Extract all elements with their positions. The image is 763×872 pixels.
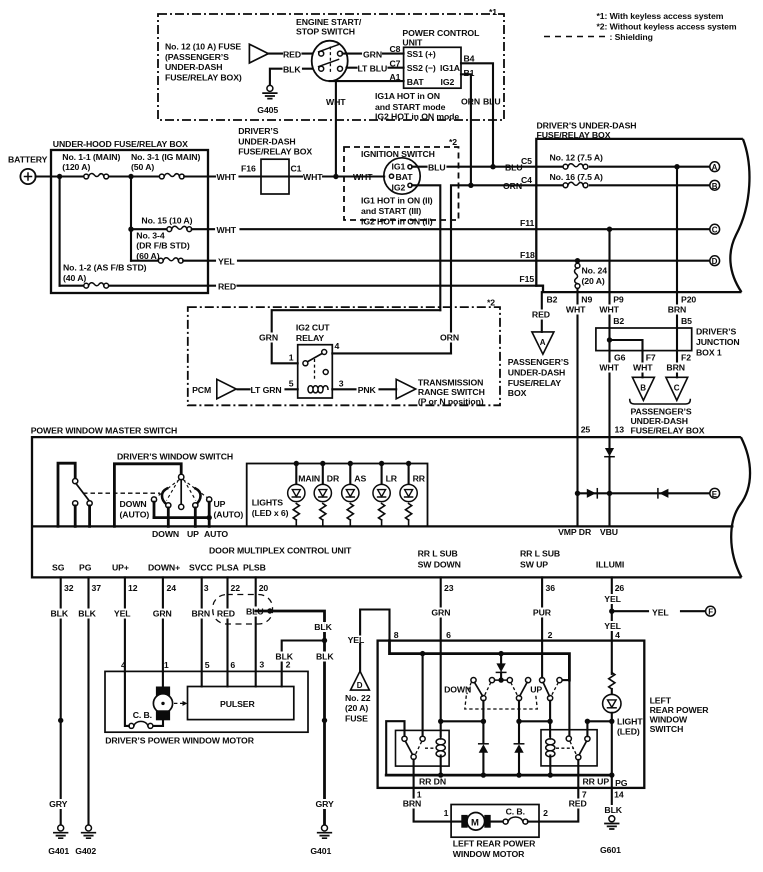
fuse No.1-2	[84, 283, 109, 288]
svg-text:TRANSMISSION: TRANSMISSION	[418, 378, 483, 388]
svg-text:BOX 1: BOX 1	[696, 348, 722, 358]
wire BLK jog right and down	[256, 611, 325, 825]
wire P9 vertical	[608, 229, 610, 292]
aux switch feed (inverted U)	[58, 463, 75, 526]
wire CB to box edge	[528, 821, 539, 823]
wire aux left contact to bar	[74, 506, 77, 527]
connector circle D	[710, 256, 720, 266]
svg-text:AS: AS	[354, 474, 366, 484]
svg-text:BATTERY: BATTERY	[8, 155, 48, 165]
wire BLU from IG1 to C5	[412, 166, 536, 168]
svg-text:PLSA: PLSA	[216, 563, 240, 573]
connector triangle D (pointing up)	[351, 671, 370, 690]
pivot stem	[180, 480, 182, 505]
svg-text:(DR F/B STD): (DR F/B STD)	[136, 241, 190, 251]
svg-text:PCM: PCM	[192, 385, 211, 395]
svg-text:GRN: GRN	[153, 609, 172, 619]
node PG bus	[609, 772, 614, 777]
wire RED to rear motor	[539, 788, 578, 822]
svg-text:WHT: WHT	[326, 97, 346, 107]
switch arm DOWN	[475, 682, 483, 696]
wire UP contact down	[194, 508, 197, 527]
svg-text:B2: B2	[547, 295, 558, 305]
LIGHTS sub box	[247, 464, 428, 527]
wire WHT from C1 to ignition node	[289, 175, 384, 177]
motor M2 circle	[467, 813, 485, 831]
svg-text:36: 36	[546, 583, 556, 593]
connector triangle A	[532, 332, 554, 354]
switch bottom contact row	[481, 696, 486, 701]
wire F18 row	[536, 260, 710, 262]
svg-text:REAR POWER: REAR POWER	[650, 705, 710, 715]
wire DOWN(AUTO) to link bar	[153, 502, 156, 517]
svg-text:6: 6	[446, 630, 451, 640]
svg-text:(20 A): (20 A)	[345, 703, 368, 713]
wire PUR pin2 down to UP switch area	[541, 641, 543, 678]
connector circle E	[710, 488, 720, 498]
svg-text:1: 1	[164, 660, 169, 670]
svg-text:BLK: BLK	[316, 652, 334, 662]
svg-text:*2: *2	[487, 298, 495, 308]
svg-text:3: 3	[204, 583, 209, 593]
svg-text:No. 22: No. 22	[345, 693, 371, 703]
aux switch contact left	[73, 501, 78, 506]
relay UP contact left	[566, 736, 571, 741]
dashed enclosure *2	[188, 307, 500, 405]
svg-text:POWER CONTROL: POWER CONTROL	[402, 28, 480, 38]
node BLK tap on BLU wire	[267, 608, 272, 613]
rear motor box	[451, 805, 539, 838]
wire C5 row	[536, 166, 710, 168]
fuse feed triangle	[249, 44, 268, 63]
motor M2 brush right	[484, 815, 490, 828]
left banana contact	[162, 489, 167, 506]
relay DN contact left	[402, 736, 407, 741]
svg-text:F7: F7	[646, 353, 656, 363]
svg-text:A: A	[540, 338, 546, 347]
wire P20 BRN down to junction box	[676, 292, 678, 328]
svg-text:5: 5	[289, 379, 294, 389]
svg-text:32: 32	[64, 583, 74, 593]
svg-text:No. 12 (7.5 A): No. 12 (7.5 A)	[550, 153, 604, 163]
wire mid bus down	[130, 177, 132, 261]
svg-text:E: E	[712, 490, 718, 499]
fuse No.15	[167, 226, 192, 231]
svg-text:BLU: BLU	[505, 162, 523, 172]
svg-text:26: 26	[615, 583, 625, 593]
relay mech dash link	[314, 359, 316, 381]
node on SG wire	[58, 718, 63, 723]
node LED row right	[609, 719, 614, 724]
pin 23 wire GRN down to rear switch pin 6	[440, 577, 442, 640]
svg-text:ILLUMI: ILLUMI	[596, 560, 624, 570]
svg-text:LEFT: LEFT	[650, 696, 672, 706]
wire CB to YEL pin4	[125, 671, 129, 726]
svg-text:B5: B5	[681, 316, 692, 326]
svg-text:DOWN: DOWN	[120, 499, 147, 509]
wire B4 to BLU vertical	[461, 63, 493, 166]
diode UP (up-pointing)	[514, 744, 523, 753]
svg-text:(120 A): (120 A)	[62, 162, 90, 172]
node LED row left	[585, 719, 590, 724]
svg-text:GRY: GRY	[316, 799, 335, 809]
bracket under B and C	[630, 400, 691, 405]
svg-text:IG1A: IG1A	[440, 63, 461, 73]
svg-text:*1: With keyless access system: *1: With keyless access system	[597, 11, 724, 21]
diode DOWN (up-pointing)	[479, 744, 488, 753]
node P9 tap	[607, 227, 612, 232]
svg-text:PG: PG	[79, 563, 92, 573]
svg-text:YEL: YEL	[604, 594, 621, 604]
torn edge curve (master box)	[731, 437, 750, 577]
svg-text:and START mode: and START mode	[375, 102, 446, 112]
wire LED row	[587, 720, 611, 722]
wire LED down to PG	[611, 713, 613, 788]
node GRN row	[438, 719, 443, 724]
relay DN contact mid	[420, 736, 425, 741]
mech dashed arms	[467, 683, 559, 696]
LED light circle	[603, 694, 621, 712]
svg-text:F16: F16	[241, 163, 256, 173]
svg-text:N9: N9	[581, 295, 592, 305]
svg-text:BLK: BLK	[283, 64, 301, 74]
svg-text:4: 4	[615, 630, 620, 640]
node VBU-E row	[607, 491, 612, 496]
relay DN arm	[405, 741, 412, 754]
ignition switch body circle	[384, 158, 420, 194]
wire resistor to LED	[611, 689, 613, 694]
svg-text:YEL: YEL	[114, 609, 131, 619]
node UP coil bus	[548, 772, 553, 777]
svg-text:5: 5	[205, 660, 210, 670]
wire coil pin5	[238, 388, 298, 390]
svg-text:UNDER-HOOD FUSE/RELAY BOX: UNDER-HOOD FUSE/RELAY BOX	[53, 139, 188, 149]
ground G401 (mid)	[318, 825, 332, 838]
wire G6 WHT down to master switch	[608, 351, 610, 438]
wire B2-G6 through box	[608, 328, 610, 351]
wire IG2 GRN branch (down, left, down to pin1)	[272, 310, 441, 363]
driver's junction box 1	[596, 328, 692, 351]
wire left bus down	[59, 177, 61, 286]
node BLU/B4 junction	[490, 164, 495, 169]
svg-text:UNDER-DASH: UNDER-DASH	[238, 136, 295, 146]
svg-text:YEL: YEL	[348, 635, 365, 645]
svg-text:ORN: ORN	[503, 181, 522, 191]
svg-text:C8: C8	[390, 44, 401, 54]
svg-text:2: 2	[543, 808, 548, 818]
motor M1 brush bottom	[156, 710, 170, 720]
svg-text:2: 2	[286, 659, 291, 669]
svg-text:LIGHT: LIGHT	[617, 717, 643, 727]
wire ORN to relay pin 4	[332, 352, 451, 354]
svg-text:SS1 (+): SS1 (+)	[407, 49, 436, 59]
wire UP NC contact up to LED row	[586, 721, 588, 736]
aux switch top contact	[73, 479, 78, 484]
svg-text:SW UP: SW UP	[520, 560, 548, 570]
ground G401 (left)	[54, 825, 68, 838]
relay DN coil	[440, 737, 442, 740]
svg-text:C1: C1	[291, 163, 302, 173]
switch arm row1	[319, 45, 339, 52]
svg-text:UNDER-DASH: UNDER-DASH	[508, 367, 565, 377]
dashed box ignition switch	[344, 147, 459, 220]
svg-text:2: 2	[548, 630, 553, 640]
diode right-pointing on E row	[587, 489, 596, 498]
svg-text:BLK: BLK	[275, 652, 293, 662]
svg-text:23: 23	[444, 583, 454, 593]
pin 26 wire YEL down	[611, 577, 613, 640]
svg-text:WINDOW MOTOR: WINDOW MOTOR	[453, 849, 525, 859]
svg-text:C: C	[712, 226, 718, 235]
dashed enclosure *1 (keyless access system)	[158, 14, 504, 120]
wire P20 vertical	[676, 167, 678, 292]
svg-text:RR DN: RR DN	[419, 777, 446, 787]
svg-text:C: C	[674, 384, 680, 393]
wire RED out to F15	[110, 285, 537, 287]
svg-text:WHT: WHT	[566, 305, 586, 315]
diode left-pointing on E row	[659, 489, 668, 498]
svg-text:(PASSENGER’S: (PASSENGER’S	[165, 52, 229, 62]
svg-text:UP: UP	[214, 499, 226, 509]
wire LT BLU to C7	[347, 67, 404, 69]
svg-text:B: B	[640, 384, 646, 393]
svg-text:MAIN: MAIN	[298, 474, 320, 484]
motor M1 brush top	[156, 687, 170, 697]
wire aux right contact to bar	[88, 506, 91, 527]
pivot circle	[179, 474, 184, 479]
svg-text:B: B	[712, 182, 718, 191]
svg-text:WHT: WHT	[599, 305, 619, 315]
svg-text:BRN: BRN	[666, 363, 685, 373]
svg-text:P20: P20	[681, 295, 696, 305]
svg-text:24: 24	[167, 583, 177, 593]
LED RR	[406, 461, 411, 466]
wire YEL jog from fuse D to pin 8	[360, 610, 389, 645]
wire node to fuse 3-1	[131, 175, 159, 177]
svg-text:YEL: YEL	[218, 256, 235, 266]
svg-text:IG2 HOT in ON (II): IG2 HOT in ON (II)	[361, 217, 433, 227]
svg-text:F15: F15	[519, 274, 534, 284]
feed bus pin8 across	[390, 641, 570, 681]
svg-text:No. 1-1 (MAIN): No. 1-1 (MAIN)	[62, 152, 120, 162]
ground G601	[605, 816, 619, 829]
svg-text:DR: DR	[327, 474, 340, 484]
svg-text:BLK: BLK	[51, 609, 69, 619]
wire BRN to rear motor	[414, 788, 452, 822]
svg-text:(P or N position): (P or N position)	[418, 396, 484, 406]
svg-text:FUSE/RELAY BOX: FUSE/RELAY BOX	[631, 426, 705, 436]
svg-text:UP: UP	[187, 529, 199, 539]
svg-text:RED: RED	[218, 281, 236, 291]
relay UP common contact	[576, 755, 581, 760]
ground G402	[82, 825, 96, 838]
circuit breaker C.B. (rear)	[503, 819, 508, 824]
svg-text:(20 A): (20 A)	[582, 276, 605, 286]
wire feed to center diode	[500, 654, 502, 664]
node IG MAIN tap	[128, 174, 133, 179]
switch arm row2	[319, 59, 339, 66]
connector triangle PCM	[217, 379, 236, 399]
svg-text:RR: RR	[413, 474, 426, 484]
aux switch contact right	[87, 501, 92, 506]
relay coil	[308, 386, 328, 393]
svg-text:ORN: ORN	[440, 332, 459, 342]
svg-text:DRIVER’S: DRIVER’S	[696, 327, 737, 337]
svg-text:SVCC: SVCC	[189, 563, 214, 573]
LED MAIN: node, drop, led, resistor	[294, 461, 299, 466]
relay UP mech dashes	[556, 742, 576, 755]
svg-text:4: 4	[335, 341, 340, 351]
rear switch box	[378, 641, 645, 788]
wire mid bus to fuse 3-4	[131, 260, 158, 262]
svg-text:RED: RED	[532, 310, 550, 320]
diode on VBU line	[605, 448, 614, 456]
svg-text:C5: C5	[521, 156, 532, 166]
svg-text:BAT: BAT	[407, 77, 425, 87]
svg-text:LIGHTS: LIGHTS	[252, 498, 284, 508]
wire left bus to fuse 1-2	[60, 285, 84, 287]
fuse No.3-4	[158, 258, 183, 263]
node UP row	[547, 719, 552, 724]
connector triangle C	[666, 377, 688, 400]
wire to fuse 1-1	[60, 175, 84, 177]
svg-text:PUR: PUR	[533, 607, 552, 617]
svg-text:WHT: WHT	[303, 172, 323, 182]
svg-text:IG2 HOT in ON mode: IG2 HOT in ON mode	[375, 111, 459, 121]
svg-text:WHT: WHT	[217, 225, 237, 235]
svg-text:G6: G6	[614, 353, 626, 363]
link bar	[154, 516, 209, 519]
svg-text:LEFT REAR POWER: LEFT REAR POWER	[453, 839, 536, 849]
svg-text:8: 8	[394, 630, 399, 640]
node battery feed	[57, 174, 62, 179]
svg-text:PASSENGER’S: PASSENGER’S	[508, 357, 569, 367]
svg-text:WHT: WHT	[599, 363, 619, 373]
svg-text:No. 1-2 (AS F/B STD): No. 1-2 (AS F/B STD)	[63, 263, 147, 273]
pin 22 wire RED to pulser pin 6	[226, 577, 228, 686]
svg-text:*2: *2	[449, 137, 457, 147]
wire GRN pin6 down	[440, 641, 442, 737]
wire B5-F2 through box	[676, 328, 678, 351]
relay DN common contact	[411, 754, 416, 759]
svg-text:3: 3	[259, 659, 264, 669]
relay UP contact right	[585, 736, 590, 741]
svg-text:UP+: UP+	[112, 563, 129, 573]
wire WHT No.15 out to F11	[192, 228, 537, 230]
svg-text:LR: LR	[386, 474, 398, 484]
svg-text:YEL: YEL	[652, 607, 669, 617]
svg-text:WHT: WHT	[353, 172, 373, 182]
fuse No.1-1	[84, 174, 109, 179]
svg-text:RED: RED	[217, 609, 235, 619]
master switch box outline with torn right edge	[32, 437, 742, 577]
node center-UP row	[516, 719, 521, 724]
wire F11 row	[536, 228, 710, 230]
svg-text:ENGINE START/: ENGINE START/	[296, 17, 362, 27]
svg-text:(LED): (LED)	[617, 726, 640, 736]
fuse No.12	[563, 164, 588, 169]
svg-text:No. 24: No. 24	[582, 266, 608, 276]
svg-text:BRN: BRN	[668, 305, 687, 315]
wire RR UP output	[577, 760, 579, 788]
diode center (down)	[496, 663, 505, 672]
relay arm	[308, 354, 323, 362]
svg-text:WINDOW: WINDOW	[650, 715, 688, 725]
engine start/stop switch body (ellipse)	[312, 41, 348, 81]
wire C4 row	[536, 184, 710, 186]
pin 20 wire BLU to pulser pin 3	[255, 577, 257, 686]
legend shielding dashes	[544, 36, 607, 38]
svg-text:PLSB: PLSB	[243, 563, 266, 573]
contact UP	[193, 503, 198, 508]
svg-text:A1: A1	[390, 72, 401, 82]
LED AS	[348, 461, 353, 466]
svg-text:BLU: BLU	[483, 97, 501, 107]
node junction box tap	[607, 337, 612, 342]
wire YEL to triangle D	[359, 644, 361, 671]
wire B1 to ORN vertical	[461, 74, 471, 185]
motor unit box	[105, 671, 308, 732]
svg-text:No. 15 (10 A): No. 15 (10 A)	[141, 216, 192, 226]
resistor (illumination)	[609, 673, 615, 690]
wire DN coil to bus	[440, 756, 442, 776]
svg-text:F11: F11	[520, 218, 534, 228]
svg-text:STOP SWITCH: STOP SWITCH	[296, 27, 355, 37]
connector circle A	[710, 162, 720, 172]
svg-text:FUSE/RELAY BOX): FUSE/RELAY BOX)	[165, 72, 242, 82]
svg-text:SS2 (−): SS2 (−)	[407, 63, 436, 73]
svg-text:G601: G601	[600, 845, 621, 855]
relay DN NO contact loop	[386, 721, 404, 775]
pin 37 wire PG/BLK down to ground	[87, 577, 89, 824]
svg-text:IG1A HOT in ON: IG1A HOT in ON	[375, 91, 440, 101]
wire YEL to connector F	[612, 610, 706, 612]
svg-text:3: 3	[339, 379, 344, 389]
wire B2 RED down to triangle A	[541, 292, 543, 332]
svg-text:BLK: BLK	[604, 805, 622, 815]
svg-text:C4: C4	[521, 175, 532, 185]
wire BAT to A1	[330, 80, 404, 82]
svg-text:VMP DR: VMP DR	[558, 527, 592, 537]
svg-text:JUNCTION: JUNCTION	[696, 337, 740, 347]
contact DOWN(AUTO)	[151, 497, 156, 502]
aux switch arm	[76, 484, 89, 501]
circuit breaker C.B.	[148, 723, 153, 728]
torn edge curve	[730, 139, 749, 292]
wire E row	[578, 492, 711, 494]
svg-text:DRIVER’S WINDOW SWITCH: DRIVER’S WINDOW SWITCH	[117, 452, 233, 462]
svg-text:No. 12 (10 A) FUSE: No. 12 (10 A) FUSE	[165, 42, 241, 52]
pin 36 wire PUR down to rear switch pin 2	[541, 577, 543, 640]
svg-text:PNK: PNK	[358, 385, 377, 395]
svg-text:IG1: IG1	[392, 162, 406, 172]
connector triangle B	[632, 377, 654, 400]
node DOWN-GRN row	[481, 719, 486, 724]
svg-text:BOX: BOX	[508, 388, 527, 398]
svg-text:BLU: BLU	[428, 162, 446, 172]
svg-text:WHT: WHT	[633, 363, 653, 373]
switch contacts row2	[319, 66, 324, 71]
svg-text:(AUTO): (AUTO)	[120, 509, 150, 519]
svg-text:SW DOWN: SW DOWN	[418, 560, 461, 570]
node No.15 tap	[128, 227, 133, 232]
wire through F16	[261, 175, 289, 177]
driver's switch feed L	[114, 464, 181, 527]
svg-text:1: 1	[444, 808, 449, 818]
svg-text:No. 16 (7.5 A): No. 16 (7.5 A)	[550, 172, 604, 182]
wire F2 BRN to triangle C	[676, 351, 678, 378]
pin 32 wire SG/BLK down to ground	[60, 577, 62, 824]
